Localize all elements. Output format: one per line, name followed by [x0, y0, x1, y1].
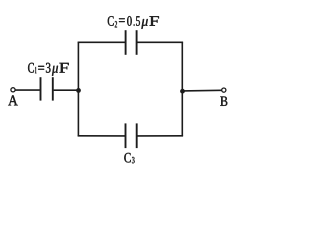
terminal B	[222, 88, 226, 92]
wire: bottom branch right segment	[138, 135, 184, 137]
wire: right node to terminal B	[183, 89, 222, 92]
wire: top branch right segment	[137, 41, 183, 43]
wire: right vertical branch	[181, 42, 183, 136]
wire: bottom branch left segment	[78, 135, 125, 137]
wire: top branch left segment	[78, 41, 125, 43]
wire: left vertical branch	[77, 42, 79, 136]
node: left junction	[76, 88, 81, 93]
wire: C1 right plate to left node	[54, 89, 79, 91]
capacitor C1	[41, 77, 53, 100]
label C3	[124, 153, 134, 163]
node: right junction	[180, 89, 185, 94]
label A	[8, 95, 18, 105]
label C2 = 0.5 microfarad	[108, 16, 159, 29]
wire: terminal A to C1 left plate	[15, 89, 40, 91]
capacitor C2	[126, 30, 137, 55]
capacitor C3	[126, 123, 137, 148]
terminal A	[11, 88, 15, 92]
label C1 = 3 microfarad	[28, 63, 69, 76]
label B	[220, 97, 227, 106]
